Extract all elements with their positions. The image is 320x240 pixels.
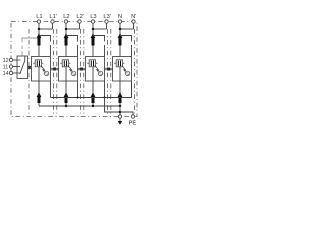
wire: L3 terminal down to junction [92,23,94,29]
wire: L1' terminal down to bridge [52,23,54,29]
module boundary dash-dot line 7 [110,29,112,117]
wire: arrester to box bottom module 3 [92,67,94,81]
surge arrester element module 1 [33,60,43,67]
wire: terminal 14 to FM box [13,72,17,74]
enclosure border (dash-dot device outline) [11,22,137,117]
wire: L3' terminal down to bridge [106,23,108,29]
node: PE junction dot [119,111,122,114]
module 2 box [59,57,78,82]
node: junction dot L1 [38,28,41,31]
terminal earth [118,115,121,118]
svg-text:L2: L2 [63,14,69,20]
module boundary dash-dot line 6 [107,29,109,117]
terminal L2' [78,20,81,23]
module boundary dash-dot line 5 [83,29,85,117]
surge arrester element module 2 [60,60,70,67]
surge arrester element module 4 [114,60,124,67]
status indicator module 4 [125,71,130,76]
plug-in contact (top) module 2 [64,33,69,45]
surge arrester element module 3 [87,60,97,67]
wire: PE line to PE terminal [120,112,133,115]
svg-text:L1: L1 [36,14,42,20]
wire: PE bus (main collector) [39,105,120,107]
wire: box bottom to lower plug contact module 4 [119,81,121,94]
svg-text:N: N [118,14,122,20]
module boundary dash-dot line 3 [56,29,58,117]
wire: main bus to earth terminal [119,106,121,115]
plug-in contact (top) module 3 [91,33,96,45]
wire: secondary drop module 4 [131,81,133,98]
module boundary dash-dot line 4 [80,29,82,117]
status indicator module 2 [71,71,76,76]
wire: monitoring tap module 1 [39,36,51,57]
terminal L3 [91,20,94,23]
plug-in contact (bottom) module 2 [64,92,69,103]
wire: L1 terminal down to junction [38,23,40,29]
wire: junction to plug contact [38,29,40,35]
wire: secondary bus drop to PE line [105,98,121,113]
module 4 box [113,57,132,82]
connector link module 3 to module 4 [105,68,113,71]
terminal PE [131,115,134,118]
wire: contact to module box top [92,46,94,57]
connector link module 2 to module 3 [78,68,86,71]
wire: FM linkage riser [22,38,38,56]
wire: box bottom to lower plug contact module 1 [38,81,40,94]
node: junction dot L3 [92,28,95,31]
disconnector linkage arrow module 1 [41,65,45,71]
wire: arrester to box bottom module 4 [119,67,121,81]
module boundary dash-dot line 2 [53,29,55,117]
node: junction dot L2 [65,28,68,31]
wire: bridge between L3 and L3' [93,28,107,30]
wire: junction to plug contact [92,29,94,35]
wire: box bottom to lower plug contact module 2 [65,81,67,94]
wire: terminal 11 to FM box [13,66,17,68]
wire: secondary drop module 2 [77,81,79,98]
svg-text:12: 12 [3,58,9,64]
wire: contact to module box top [119,46,121,57]
node: bus dot N [119,105,121,107]
disconnector linkage arrow module 3 [95,65,99,71]
wire: bridge between L1 and L1' [39,28,53,30]
terminal L1 [37,20,40,23]
node: bus dot L2 [65,105,67,107]
wire: lower contact to PE bus module 4 [119,103,121,106]
wire: box bottom to lower plug contact module 3 [92,81,94,94]
node: secondary bus dot b [104,97,106,99]
svg-text:L3: L3 [90,14,96,20]
FM changeover switch symbol [17,56,25,74]
wire: monitoring tap module 4 [120,36,132,57]
wire: secondary drop module 1 [50,81,52,98]
wire: bridge between L2 and L2' [66,28,80,30]
status indicator module 1 [44,71,49,76]
plug-in contact (bottom) module 3 [91,92,96,103]
wire: L2 terminal down to junction [65,23,67,29]
wire: lower contact to PE bus module 1 [38,103,40,106]
connector link module 1 to module 2 [51,68,59,71]
terminal L2 [64,20,67,23]
svg-text:N': N' [131,14,136,20]
wire: L2' terminal down to bridge [79,23,81,29]
wire: terminal 12 to FM box [13,59,17,61]
status indicator module 3 [98,71,103,76]
node: bus dot L3 [92,105,94,107]
terminal L3' [105,20,108,23]
plug-in contact (top) module 1 [37,33,42,45]
node: junction dot N [119,28,122,31]
plug-in contact (bottom) module 4 [118,92,123,103]
wire: monitoring tap module 2 [66,36,78,57]
disconnector linkage arrow module 2 [68,65,72,71]
svg-text:L1': L1' [49,14,57,20]
wire: monitoring tap module 3 [93,36,105,57]
module 3 box [86,57,105,82]
wire: contact to module box top [38,46,40,57]
terminal 14 [9,71,12,74]
module boundary dash-dot line 8 [134,29,136,117]
wire: secondary drop module 3 [104,81,106,98]
node: secondary bus dot a [77,97,79,99]
terminal 12 [9,58,12,61]
wire: N terminal down to junction [119,23,121,29]
svg-text:PE: PE [129,120,137,126]
ground symbol (earth arrow) [118,118,122,124]
svg-text:14: 14 [3,71,9,77]
terminal L1' [51,20,54,23]
svg-text:L2': L2' [76,14,84,20]
wire: junction to plug contact [119,29,121,35]
wire: lower contact to PE bus module 2 [65,103,67,106]
connector link FM box to module 1 [28,66,32,69]
wire: contact to module box top [65,46,67,57]
wire: junction to plug contact [65,29,67,35]
terminal 11 [9,65,12,68]
svg-text:L3': L3' [103,14,111,20]
plug-in contact (top) module 4 [118,33,123,45]
wire: arrester to box bottom module 2 [65,67,67,81]
wire: N' terminal down to bridge [133,23,135,29]
wire: secondary bus [51,81,132,98]
module 1 box [32,57,51,82]
wire: bridge between N and N' [120,28,134,30]
terminal N' [132,20,135,23]
plug-in contact (bottom) module 1 [37,92,42,103]
FM remote signalling contact box [17,56,28,79]
wire: lower contact to PE bus module 3 [92,103,94,106]
module boundary dash-dot line 1 [28,29,30,117]
terminal N [118,20,121,23]
svg-text:11: 11 [3,65,9,71]
wire: arrester to box bottom module 1 [38,67,40,81]
disconnector linkage arrow module 4 [122,65,126,71]
